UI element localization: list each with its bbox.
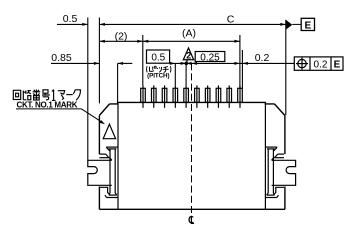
svg-text:0.5: 0.5 — [63, 13, 78, 25]
svg-text:CKT. NO.1 MARK: CKT. NO.1 MARK — [17, 100, 78, 109]
svg-text:0.25: 0.25 — [200, 53, 220, 64]
svg-text:E: E — [304, 21, 311, 32]
svg-text:(A): (A) — [182, 28, 196, 40]
svg-text:C: C — [227, 14, 235, 26]
svg-text:(2): (2) — [115, 31, 128, 43]
svg-text:0.2: 0.2 — [314, 60, 328, 71]
svg-text:0.85: 0.85 — [51, 52, 72, 64]
svg-text:0.5: 0.5 — [151, 52, 165, 63]
svg-text:0.2: 0.2 — [255, 52, 270, 64]
svg-text:(PITCH): (PITCH) — [147, 72, 169, 79]
svg-text:E: E — [334, 60, 341, 71]
svg-text:2: 2 — [186, 51, 191, 61]
